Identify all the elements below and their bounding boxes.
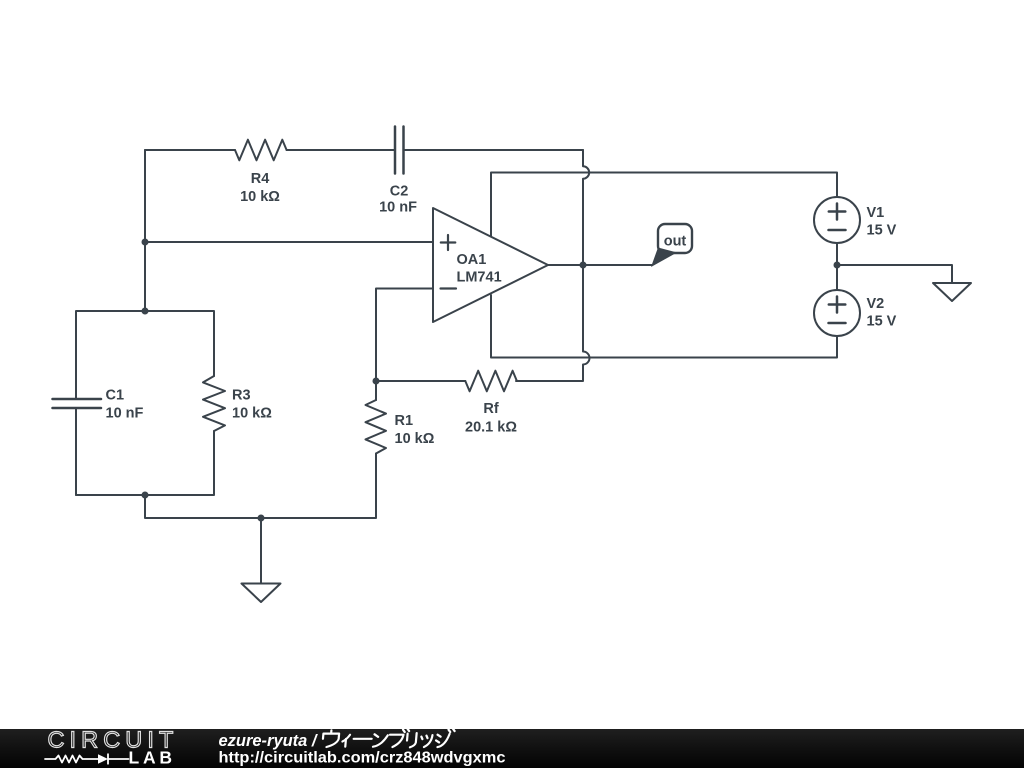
svg-text:R4: R4	[251, 171, 270, 187]
wire bottom net	[145, 454, 376, 519]
wire Rf left lead	[376, 380, 465, 382]
katakana bu	[389, 729, 409, 747]
footer bar	[0, 729, 1024, 768]
svg-text:LAB: LAB	[129, 748, 177, 768]
svg-text:out: out	[664, 234, 687, 250]
svg-text:10 kΩ: 10 kΩ	[395, 431, 435, 447]
wire top-left horizontal to R4	[145, 149, 235, 151]
katakana ri	[406, 733, 416, 747]
wire R3 bottom lead box bottom	[76, 431, 214, 495]
capacitor C1	[53, 399, 102, 408]
svg-text:Rf: Rf	[483, 401, 498, 417]
katakana u	[322, 730, 339, 747]
capacitor C2	[395, 127, 404, 174]
svg-text:10 kΩ: 10 kΩ	[232, 406, 272, 422]
node inverting junction	[373, 378, 380, 385]
svg-text:V1: V1	[867, 205, 885, 221]
svg-text:ezure-ryuta /: ezure-ryuta /	[219, 732, 319, 750]
svg-text:LM741: LM741	[457, 270, 502, 286]
wire V- rail	[491, 295, 837, 358]
wire vertical output net with hops	[516, 150, 590, 381]
wire C2 to top-right corner	[404, 149, 584, 151]
wire V1 bottom to V2 top	[836, 243, 838, 290]
svg-text:R1: R1	[395, 413, 414, 429]
katakana ji	[435, 729, 454, 748]
svg-text:http://circuitlab.com/crz848wd: http://circuitlab.com/crz848wdvgxmc	[219, 750, 506, 767]
wire C1 bottom lead	[75, 408, 77, 495]
svg-text:10 kΩ: 10 kΩ	[240, 189, 280, 205]
svg-text:15 V: 15 V	[867, 314, 897, 330]
out flag box	[658, 224, 692, 253]
resistor Rf	[465, 371, 517, 392]
resistor R1	[366, 400, 387, 454]
svg-text:10 nF: 10 nF	[379, 200, 417, 216]
ground right	[933, 283, 971, 301]
wire op-amp output	[548, 264, 652, 266]
wire to right ground	[837, 265, 952, 283]
op-amp plus input symbol	[441, 235, 456, 250]
wire non-inverting input	[145, 241, 433, 243]
source V2 minus	[829, 322, 846, 325]
wire C1 R3 box top	[76, 311, 214, 399]
resistor R4	[235, 140, 287, 161]
node output junction	[580, 262, 587, 269]
svg-text:15 V: 15 V	[867, 223, 897, 239]
wire ground stub bottom	[260, 518, 262, 584]
source V2 plus	[829, 297, 846, 313]
out flag pointer	[651, 248, 677, 268]
svg-text:OA1: OA1	[457, 252, 487, 268]
resistor R3	[203, 376, 225, 431]
node supply mid junction	[834, 262, 841, 269]
op-amp U1 triangle	[433, 208, 548, 322]
wire inverting input	[376, 289, 433, 382]
logo squiggle resistor	[45, 756, 98, 763]
source V1 minus	[829, 229, 846, 232]
source V2 circle	[814, 290, 860, 336]
wire R4 to C2	[287, 149, 395, 151]
katakana small i	[342, 735, 350, 747]
wire R1 top lead	[375, 381, 377, 400]
katakana n	[373, 734, 388, 746]
svg-text:V2: V2	[867, 296, 885, 312]
katakana small tsu	[420, 735, 432, 747]
op-amp minus input symbol	[441, 287, 457, 289]
footer katakana title	[322, 729, 455, 748]
svg-text:R3: R3	[232, 388, 251, 404]
svg-text:20.1 kΩ: 20.1 kΩ	[465, 420, 517, 436]
node C junction	[142, 492, 149, 499]
source V1 circle	[814, 197, 860, 243]
logo diode	[98, 754, 108, 764]
svg-text:10 nF: 10 nF	[106, 406, 144, 422]
node B junction	[142, 308, 149, 315]
node A junction	[142, 239, 149, 246]
katakana long bar	[354, 738, 372, 740]
wire V+ rail	[491, 173, 837, 241]
ground bottom	[242, 584, 281, 603]
svg-text:C2: C2	[390, 184, 409, 200]
svg-text:C1: C1	[106, 388, 125, 404]
wire left vertical net	[144, 150, 146, 311]
node ground junction	[258, 515, 265, 522]
source V1 plus	[829, 204, 846, 220]
